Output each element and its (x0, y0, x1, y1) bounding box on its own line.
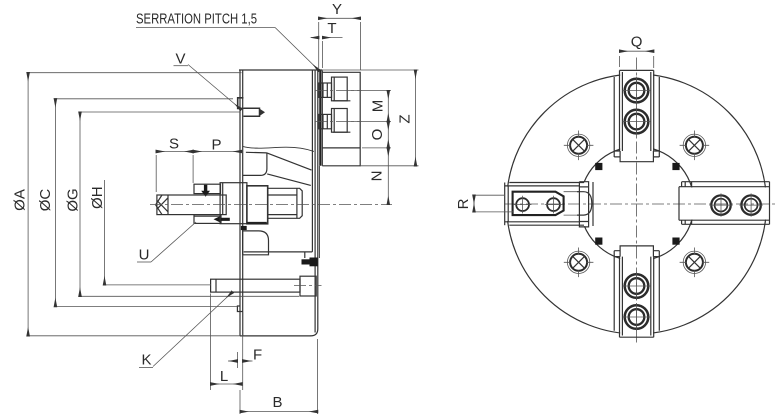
dim T (322, 41, 324, 68)
svg-text:ØG: ØG (64, 188, 81, 211)
dim ØH (105, 284, 212, 286)
mounting bolt K shank (211, 279, 300, 292)
rod tip chamfer cross (156, 195, 168, 215)
screw 1 nut (319, 83, 332, 97)
drawbar sleeve (268, 188, 303, 218)
black square keys (595, 163, 602, 170)
countersunk hole bottom-right (680, 248, 710, 278)
dim Z (360, 165, 418, 167)
dim ØG (80, 112, 299, 296)
svg-text:N: N (368, 171, 385, 182)
dim Y (319, 22, 361, 70)
svg-text:S: S (169, 136, 179, 153)
dim L (210, 294, 212, 391)
top jaw (section): outline (322, 72, 360, 166)
left jaw front view (505, 182, 593, 227)
black pin in upper block (201, 185, 210, 197)
locating pin V (238, 98, 244, 109)
dim F (237, 312, 242, 390)
screw 2 head (332, 109, 348, 133)
svg-text:SERRATION PITCH 1,5: SERRATION PITCH 1,5 (136, 12, 257, 28)
svg-text:M: M (369, 100, 386, 113)
svg-text:O: O (369, 129, 386, 141)
bolt K centerline (294, 285, 322, 287)
wire: back plate line below jaw (318, 166, 320, 258)
vertical centerline (636, 58, 638, 343)
jaw guide inner circle (580, 147, 694, 261)
screw 1 centerline (315, 90, 362, 92)
svg-text:Y: Y (332, 1, 342, 18)
bolt K head (300, 276, 316, 296)
rounded slot in body (243, 231, 269, 255)
wire: body back face mid (314, 70, 316, 333)
shaft inner lines (268, 195, 297, 215)
countersunk hole top-left (564, 131, 594, 161)
dim M O N stack (362, 91, 391, 148)
upper nut block (194, 184, 221, 193)
screw 2 centerline (315, 121, 362, 123)
bottom jaw screw 1 (625, 274, 649, 298)
svg-text:L: L (220, 368, 228, 385)
wedge block bottom thick (247, 222, 267, 224)
wire: body back face inner (311, 70, 313, 252)
wire: body front face inner (242, 70, 244, 306)
svg-text:Z: Z (396, 114, 413, 123)
countersunk hole bottom-left (564, 248, 594, 278)
svg-text:R: R (455, 198, 472, 209)
dim Q (620, 56, 654, 68)
small dark bolt right (302, 259, 310, 264)
right jaw front view (679, 182, 770, 225)
wedge block (247, 186, 268, 224)
black square node (241, 226, 247, 230)
wire: body top edge with extension to Z dim (239, 69, 322, 71)
top jaw front view (614, 70, 659, 161)
left jaw screw B (547, 198, 560, 211)
svg-text:V: V (175, 51, 185, 68)
left jaw T-slot bold (513, 192, 564, 215)
svg-text:P: P (211, 137, 221, 154)
jaw step extension for O/N handled above; extensions from jaw (347, 91, 362, 122)
screw 2 nut (319, 114, 332, 128)
internal bore contour (243, 146, 314, 151)
svg-text:T: T (327, 20, 336, 37)
svg-text:F: F (253, 347, 262, 364)
mid block (220, 183, 247, 224)
wedge ramp lower (267, 174, 311, 186)
lower nut block (194, 215, 221, 224)
chuck outer circle (507, 74, 767, 334)
top jaw screw 2 (625, 110, 649, 134)
white masks hiding arcs behind jaws (505, 71, 768, 337)
counterbore step (243, 153, 267, 176)
wedge ramp upper (267, 153, 312, 170)
bottom jaw front view (614, 246, 659, 337)
screw 1 head (332, 77, 348, 101)
wire: body bottom edge (240, 335, 311, 337)
svg-text:B: B (272, 394, 282, 411)
dim ØA (28, 73, 241, 336)
left jaw screw A (516, 198, 529, 211)
svg-text:ØA: ØA (11, 189, 28, 211)
serration interface thick (319, 71, 321, 166)
svg-text:Q: Q (631, 34, 643, 51)
dim S P (156, 155, 193, 192)
jaw step line (322, 147, 360, 149)
right jaw screw B (741, 195, 760, 214)
dim ØC (55, 99, 237, 307)
bottom jaw screw 2 (625, 305, 649, 329)
svg-text:ØH: ØH (89, 186, 106, 209)
wire: body back face outer with rounded bottom corner (311, 70, 318, 336)
right jaw screw A (711, 195, 730, 214)
wire: body front face outer (239, 70, 241, 336)
dim B (240, 339, 318, 414)
horizontal internal line (244, 251, 313, 253)
main centerline (150, 204, 392, 206)
countersunk hole top-right (680, 131, 710, 161)
dim R (474, 195, 513, 212)
horizontal centerline (505, 203, 776, 205)
svg-text:U: U (139, 247, 150, 264)
sleeve end cap (296, 188, 298, 218)
svg-text:ØC: ØC (37, 189, 54, 212)
top jaw screw 1 (625, 79, 649, 103)
draw rod (157, 195, 226, 215)
node front lip (237, 306, 242, 336)
svg-text:K: K (141, 352, 151, 369)
black arrow under rod (214, 216, 230, 222)
